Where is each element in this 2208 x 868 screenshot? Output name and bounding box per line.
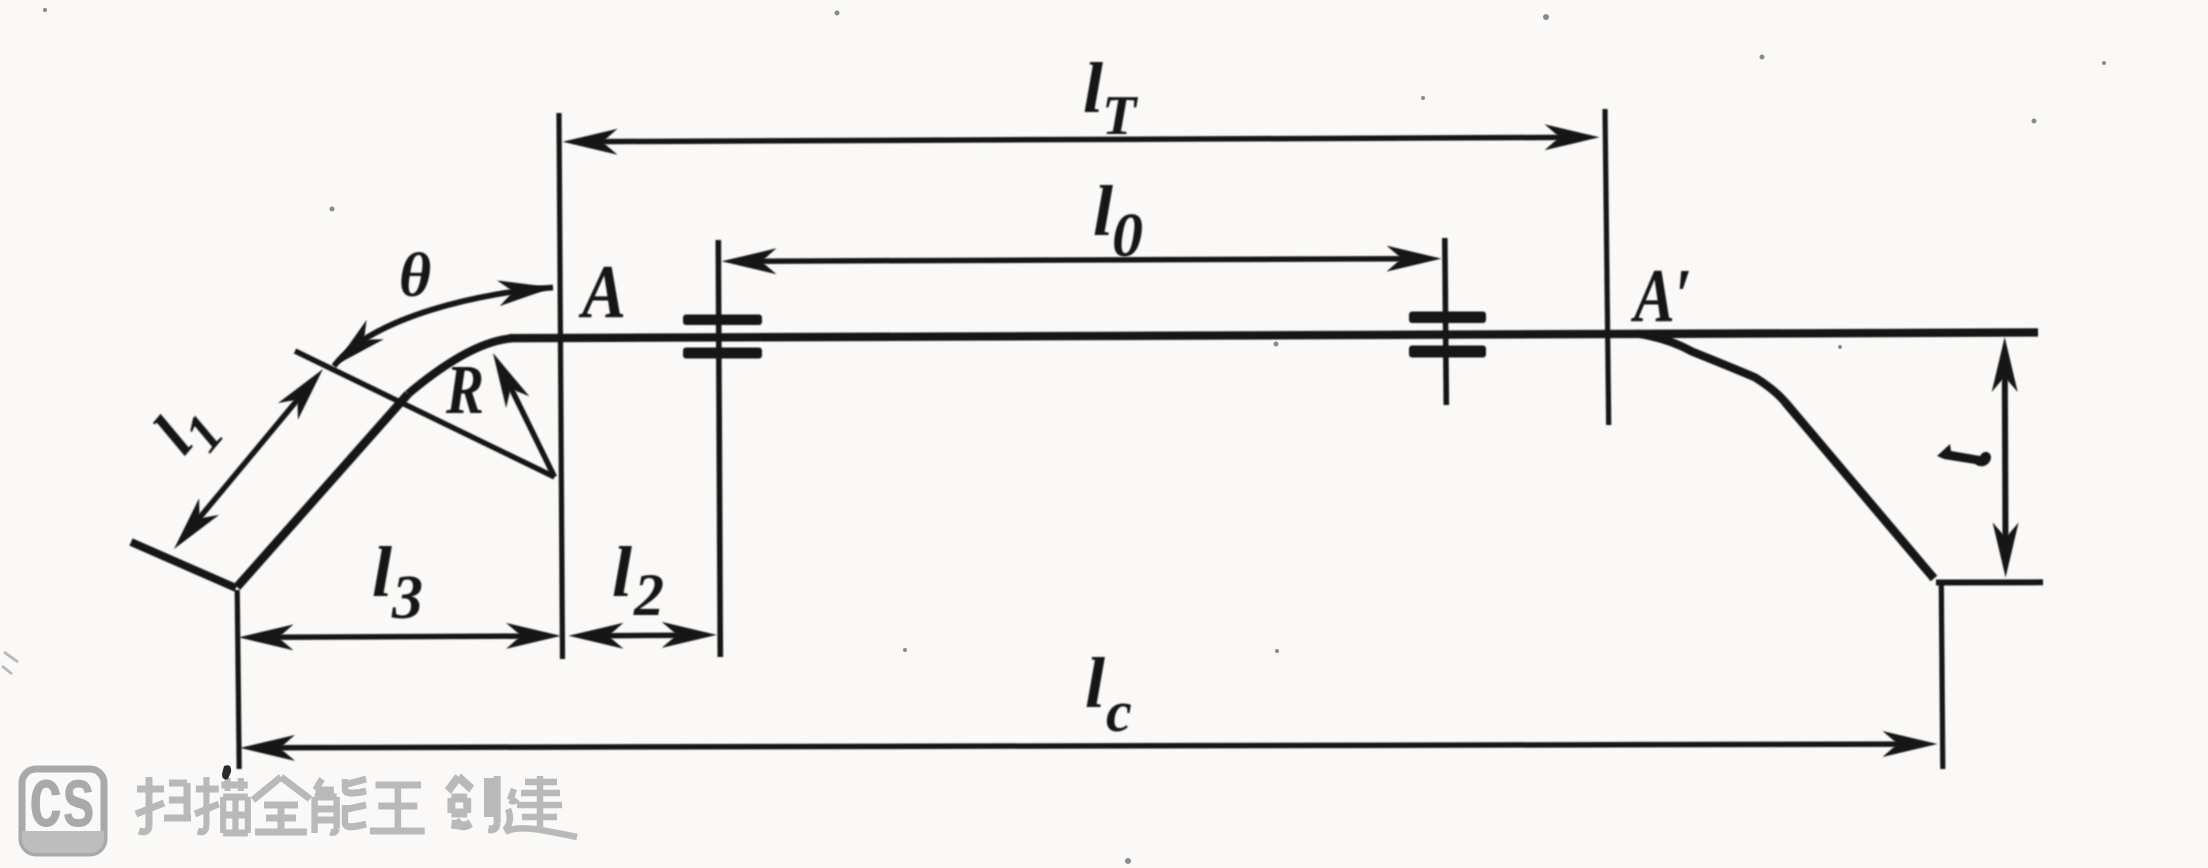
char 扫: [136, 777, 191, 832]
node A extension line: [559, 113, 563, 659]
svg-text:A: A: [579, 250, 626, 334]
left gauge lower bar: [683, 348, 762, 359]
label l (right, rotated): [1937, 444, 1991, 466]
watermark: Chinese text 扫描全能王 创建 (vector approx): [136, 776, 577, 837]
svg-text:3: 3: [391, 564, 423, 632]
arrowhead l_2 left: [569, 623, 624, 649]
wire: l_3 dimension line: [274, 636, 526, 637]
wire: left gauge mark vertical line: [718, 240, 720, 657]
char 建: [505, 776, 577, 837]
wire: specimen main top line: [509, 332, 2038, 338]
svg-text:R: R: [445, 352, 484, 429]
svg-text:c: c: [1106, 679, 1132, 744]
svg-text:cs: cs: [29, 749, 95, 845]
wire: specimen left end cap: [131, 542, 236, 588]
arrowhead l_c right: [1883, 731, 1938, 757]
arrowhead l_1 upper: [278, 361, 333, 420]
svg-text:0: 0: [1112, 202, 1143, 270]
wire: l_2 dimension line: [604, 632, 682, 638]
arrowhead l_c left: [240, 735, 295, 761]
wire: theta angle arc: [334, 288, 553, 367]
arrowhead l_T right: [1545, 124, 1600, 150]
svg-text:l: l: [372, 532, 392, 612]
wire: specimen left bend curve: [408, 338, 512, 394]
char 能: [315, 779, 367, 833]
char 王: [370, 785, 425, 831]
wire: left l_c extension line: [237, 590, 239, 769]
char 全: [253, 777, 310, 832]
arrowhead l_2 right: [662, 622, 717, 648]
wire: R radius line through tangent point: [295, 351, 555, 477]
arrowhead l_3 left: [239, 624, 294, 650]
arrowhead l_T left: [563, 129, 618, 155]
gauge marks (thick bars): [683, 312, 1486, 359]
left gauge upper bar: [683, 315, 762, 326]
arrowhead R: [481, 347, 529, 408]
char 创: [448, 776, 497, 829]
wire: R arrow shaft: [509, 384, 555, 477]
arrowhead l vertical top: [1992, 337, 2018, 392]
arrowhead l vertical bottom: [1993, 523, 2019, 578]
arrowhead l_0 left: [722, 248, 777, 274]
arrowheads: [164, 124, 2019, 761]
wire: specimen left slant tab: [237, 394, 408, 587]
svg-text:l: l: [612, 532, 632, 612]
svg-text:T: T: [1102, 85, 1139, 147]
right gauge lower bar: [1409, 346, 1486, 358]
svg-text:l: l: [1083, 48, 1103, 128]
arrowhead l_1 lower: [164, 498, 219, 557]
label l_1 (rotated along tab): [139, 385, 235, 476]
wire: l_0 dimension line: [757, 259, 1406, 262]
svg-text:2: 2: [633, 562, 664, 628]
wire: specimen right bend curve: [1636, 334, 1785, 403]
wire: right gauge mark vertical line: [1445, 238, 1447, 405]
svg-text:θ: θ: [399, 242, 431, 310]
right gauge upper bar: [1409, 312, 1486, 324]
wire: l_T dimension line: [598, 137, 1564, 141]
arrowhead theta right: [497, 275, 554, 307]
node A' extension line: [1605, 109, 1609, 425]
wire: l_c dimension line: [275, 744, 1903, 748]
svg-text:l: l: [1093, 171, 1113, 251]
wire: specimen right slant: [1785, 402, 1934, 579]
scan blot above text: [222, 765, 231, 779]
svg-text:l: l: [1085, 643, 1105, 723]
svg-text:A′: A′: [1631, 254, 1692, 338]
wire: right bottom reference tick: [1936, 579, 2043, 585]
wire: l_1 dimension line: [196, 396, 301, 523]
arrowhead l_0 right: [1387, 246, 1442, 272]
wire: l vertical dimension line: [2002, 372, 2009, 542]
watermark: CS logo: [22, 749, 104, 853]
wire: right l_c extension line: [1941, 585, 1943, 769]
arrowhead l_3 right: [506, 623, 561, 649]
arrowhead theta left: [325, 320, 383, 376]
char 描: [195, 777, 248, 833]
